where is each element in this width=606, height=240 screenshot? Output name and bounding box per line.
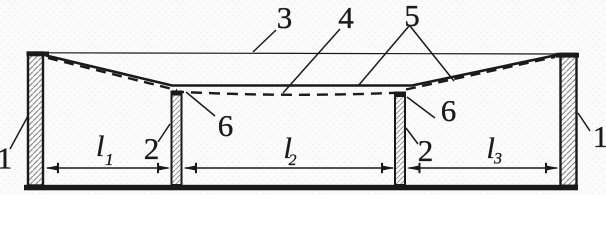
svg-text:2: 2 [144,131,160,166]
leader for label 5 to right slope [410,26,454,81]
dimension line l3 [407,163,559,173]
label 6 right [441,93,457,128]
label 2 right [418,133,434,168]
bottom slab [24,185,578,191]
leader for label 5 to mid line [358,26,409,86]
post 2 left (hatched) [171,91,183,186]
label 3 [277,0,293,35]
wall 1 right (hatched) [556,53,580,186]
dimension line l2 [184,163,395,173]
svg-text:6: 6 [218,108,234,143]
svg-text:1: 1 [593,119,606,154]
line 3 top chord [46,53,560,54]
label 6 left [218,108,234,143]
label 1 left [0,141,12,176]
solid surface line 5 [46,55,557,86]
leader for label 4 [283,29,340,93]
svg-text:4: 4 [338,0,354,35]
leader for label 6 right [407,97,435,118]
dashed surface 4 left slope [48,58,177,90]
svg-text:2: 2 [289,152,297,169]
svg-text:1: 1 [0,141,12,176]
leader for label 6 left [186,92,215,116]
dashed surface 4 right slope [406,57,555,90]
leader for label 2 right [406,128,418,144]
label 4 [338,0,354,35]
label l3 [487,132,503,168]
leader for label 1 left [10,116,28,149]
dashed surface 4 mid sag [173,92,404,95]
svg-text:1: 1 [105,150,114,169]
leader for label 3 [253,30,276,52]
wall 1 left (hatched) [27,52,50,186]
svg-text:2: 2 [418,133,434,168]
svg-text:5: 5 [404,0,420,33]
label l2 [284,132,297,169]
post 2 right (hatched) [394,92,406,186]
svg-text:3: 3 [493,151,502,168]
svg-text:l: l [96,130,104,163]
leader for label 1 right [578,113,590,131]
label l1 [96,130,114,169]
label 2 left [144,131,160,166]
label 5 [404,0,420,33]
svg-text:6: 6 [441,93,457,128]
label 1 right [593,119,606,154]
dimension line l1 [46,163,171,173]
leader for label 2 left [158,124,170,142]
svg-text:3: 3 [277,0,293,35]
